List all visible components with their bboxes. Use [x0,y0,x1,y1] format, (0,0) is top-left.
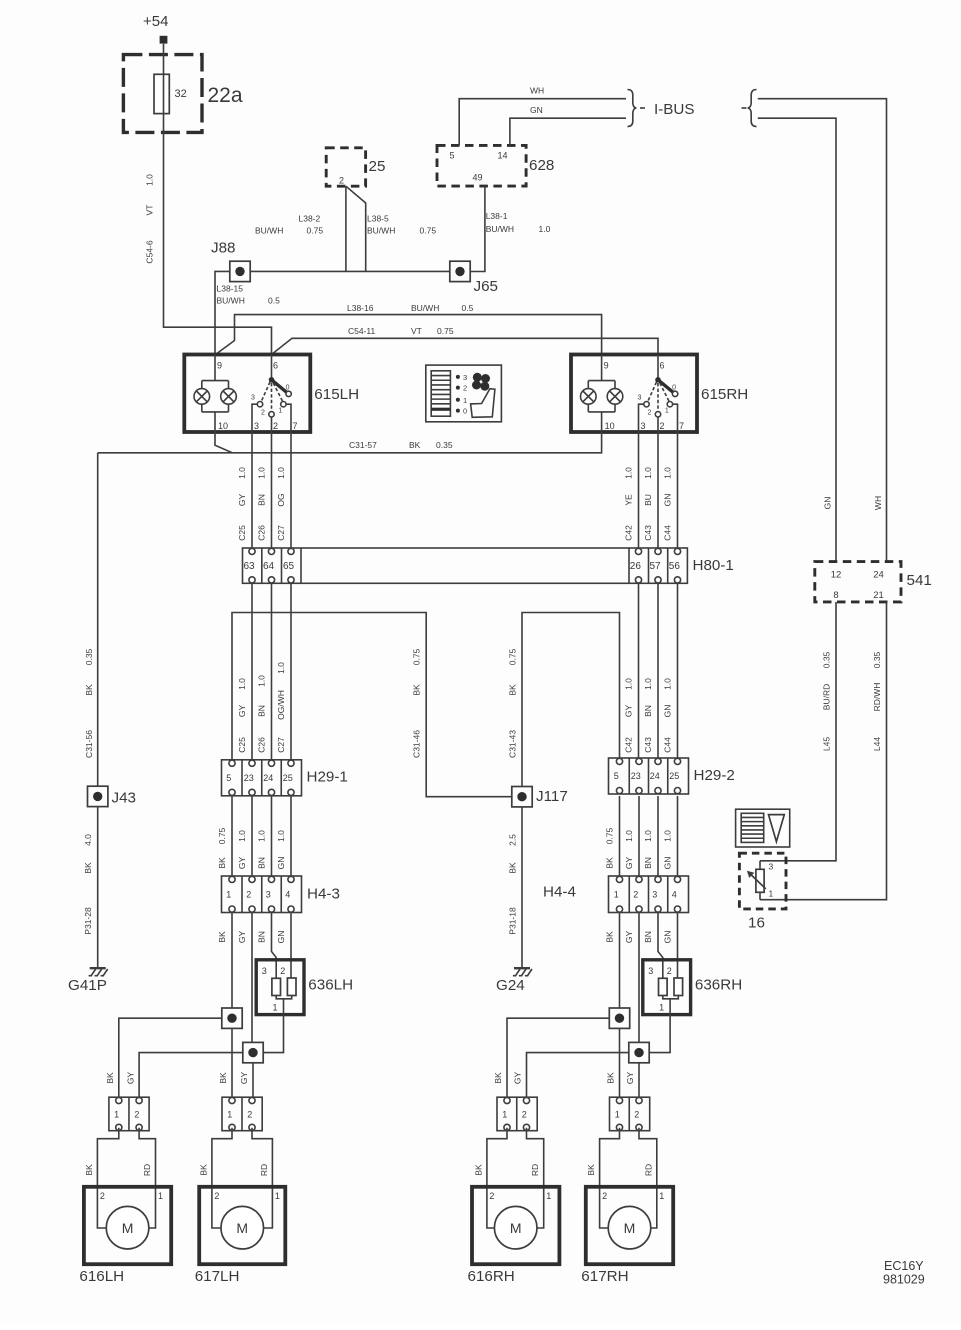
svg-text:BN: BN [643,705,653,717]
svg-text:L38-2: L38-2 [299,214,321,224]
connector H29-2 [609,758,735,794]
svg-text:3: 3 [641,421,646,431]
615LH housing [184,355,310,433]
wire C26 BN 1.0 (H80-1 to H29-1) [257,583,272,760]
svg-text:BK: BK [218,1072,228,1084]
labels BK GY [105,1072,135,1085]
svg-text:0.35: 0.35 [821,651,831,668]
svg-text:BK: BK [507,684,517,696]
svg-text:2: 2 [633,889,638,899]
backrest heater motor 617RH [581,1128,673,1285]
svg-text:3: 3 [266,889,271,899]
wire BK (H4-4 pin1 down) [605,913,620,1009]
svg-text:M: M [624,1220,636,1236]
svg-text:3: 3 [251,395,255,402]
node +54 supply [143,13,168,44]
svg-text:2: 2 [667,966,672,976]
svg-text:H80-1: H80-1 [693,557,734,574]
svg-text:EC16Y: EC16Y [884,1259,924,1273]
svg-text:2: 2 [261,410,265,417]
svg-text:9: 9 [604,361,609,371]
svg-text:1: 1 [659,1003,664,1013]
svg-text:G24: G24 [496,977,525,994]
svg-text:BK: BK [217,857,227,869]
svg-text:26: 26 [630,561,642,572]
wire pin4 GN (H29 to H4) [276,796,291,876]
svg-text:BK: BK [493,1072,503,1084]
svg-text:6: 6 [273,361,278,371]
wire BK down to 617RH connector [619,1028,621,1097]
wire GN (628 pin 14 to I-BUS) [510,105,626,146]
wire C43 BN 1.0 (H80-1 to H29-2) [643,583,658,758]
wire pin1 BK (H29 to H4) [217,796,232,876]
svg-text:617LH: 617LH [195,1268,240,1285]
svg-text:BN: BN [257,494,267,506]
svg-text:C26: C26 [257,525,267,541]
I-BUS brace right [742,90,757,127]
wire GY (H4-3 pin2 down) [237,913,252,1043]
svg-text:GN: GN [276,857,286,870]
control module 25 [326,148,385,186]
svg-text:BU: BU [643,494,653,506]
svg-text:BK: BK [606,1072,616,1084]
svg-text:1.0: 1.0 [145,174,155,186]
wire BK branch to 616RH connector [507,1018,609,1097]
svg-text:L45: L45 [821,737,831,751]
svg-text:49: 49 [473,173,483,183]
svg-text:L38-16: L38-16 [347,303,374,313]
svg-text:C25: C25 [237,737,247,753]
svg-text:GN: GN [663,931,673,944]
svg-text:I-BUS: I-BUS [654,101,695,118]
svg-text:0: 0 [672,385,676,392]
svg-text:VT: VT [411,326,422,336]
svg-text:25: 25 [669,771,679,781]
seat cushion heater motor 616LH [79,1128,171,1285]
svg-text:RD: RD [259,1164,269,1176]
wire pin1 BK (H29 to H4) [605,796,620,876]
svg-text:23: 23 [631,771,641,781]
wire J88 to J65 [250,270,450,272]
svg-text:616LH: 616LH [79,1268,124,1285]
svg-text:2: 2 [280,966,285,976]
svg-text:2: 2 [648,410,652,417]
wire C31-46 BK 0.75 (H29-1 pin5 to J117) [232,613,512,797]
svg-text:GY: GY [624,857,634,870]
wire pin2 GY (H29 to H4) [624,796,639,876]
svg-text:GY: GY [237,494,247,507]
wire C31-43 BK 0.75 (H29-2 pin5 to J117) [507,613,619,787]
connector 616RH 2-pin [497,1097,537,1131]
svg-text:BK: BK [412,684,422,696]
svg-text:GN: GN [530,105,543,115]
wire WH (I-BUS to 541 pin 24) [758,99,887,562]
svg-text:RD/WH: RD/WH [872,683,882,712]
svg-text:7: 7 [293,421,298,431]
switch illustration legend [426,365,502,422]
svg-text:C27: C27 [276,525,286,541]
svg-text:BK: BK [605,857,615,869]
svg-text:GN: GN [663,857,673,870]
wire WH (628 pin 5 to I-BUS) [459,86,626,146]
svg-text:1: 1 [615,1110,620,1120]
svg-text:0.75: 0.75 [605,827,615,844]
wire GY down to 617RH connector [638,1063,640,1097]
svg-text:65: 65 [283,561,295,572]
svg-text:BU/WH: BU/WH [486,224,514,234]
svg-text:4: 4 [285,889,290,899]
backrest heater motor 617LH [195,1128,286,1285]
svg-text:L38-15: L38-15 [217,284,244,294]
615LH rotary switch [251,355,291,433]
wire L38-1 BU/WH 1.0 (628 pin 49 to J65) [470,186,551,271]
svg-text:RD: RD [643,1164,653,1176]
wire L38-2 BU/WH 0.75 [255,186,346,271]
svg-text:BN: BN [257,705,267,717]
svg-text:YE: YE [624,494,634,506]
svg-text:6: 6 [660,361,665,371]
junction BK tap LH [222,1008,242,1028]
svg-text:BN: BN [643,857,653,869]
wire C54-6 VT 1.0 (fuse to 615LH pin 6) [145,44,272,355]
svg-text:BN: BN [643,931,653,943]
svg-text:2: 2 [134,1110,139,1120]
svg-text:C31-43: C31-43 [507,730,517,758]
wire C31-56 BK 0.35 (to J43) [84,453,98,786]
615LH indicator lamps [194,355,236,433]
svg-text:GN: GN [663,494,673,507]
wire L44 RD/WH 0.35 (541 pin 21 to sensor 16 pin 1) [760,602,887,900]
svg-text:1.0: 1.0 [237,678,247,690]
wire 636LH pin1 to GY junction [263,1015,283,1053]
svg-text:H4-4: H4-4 [543,884,576,901]
wire L38-16 BU/WH 0.5 (615LH pin 9 to 615RH pin 9) [216,303,602,355]
svg-text:2: 2 [660,421,665,431]
wire C26 BN 1.0 (615LH pin2 to H80-1) [257,432,272,548]
svg-text:GY: GY [624,705,634,718]
svg-text:BK: BK [83,862,93,874]
heating pad 636LH [256,960,353,1015]
svg-text:+54: +54 [143,13,168,30]
svg-text:C26: C26 [257,737,267,753]
svg-text:1: 1 [769,889,774,899]
svg-text:23: 23 [244,773,254,783]
wire L45 BU/RD 0.35 (541 pin 8 to sensor 16 pin 3) [760,602,836,861]
connector 617RH 2-pin [610,1097,650,1131]
svg-text:BU/RD: BU/RD [821,684,831,710]
svg-text:1.0: 1.0 [624,830,634,842]
svg-text:VT: VT [145,205,155,216]
svg-text:24: 24 [263,773,273,783]
svg-text:10: 10 [218,421,228,431]
svg-text:0.75: 0.75 [307,226,324,236]
svg-text:BK: BK [409,440,421,450]
svg-text:C31-57: C31-57 [349,440,377,450]
junction J88 [211,240,250,282]
svg-text:GY: GY [237,857,247,870]
svg-text:GN: GN [663,705,673,718]
ground G41P [89,968,108,976]
svg-text:12: 12 [831,570,842,581]
svg-text:BK: BK [605,931,615,943]
615RH rotary switch [638,355,678,433]
svg-text:1.0: 1.0 [624,467,634,479]
wire C25 GY 1.0 (H80-1 to H29-1) [237,583,252,760]
svg-text:1: 1 [463,396,467,405]
svg-text:9: 9 [217,361,222,371]
svg-text:0.75: 0.75 [412,648,422,665]
svg-text:5: 5 [614,771,619,781]
wire GN (H4-3 pin4 to 636LH pin2) [276,913,291,979]
wire C54-11 VT 0.75 (615LH pin 6 to 615RH pin 6) [272,326,659,355]
svg-text:1: 1 [546,1191,551,1201]
svg-text:1: 1 [273,1003,278,1013]
svg-text:C42: C42 [624,737,634,753]
svg-text:1.0: 1.0 [643,467,653,479]
svg-text:BU/WH: BU/WH [411,303,439,313]
wire 636RH pin1 to GY junction [649,1015,670,1053]
wire GN (I-BUS to 541 pin 12) [758,118,836,561]
svg-text:WH: WH [873,496,883,510]
svg-text:22a: 22a [208,84,243,107]
svg-text:RD: RD [142,1164,152,1176]
svg-text:5: 5 [226,773,231,783]
svg-text:GN: GN [823,497,833,510]
svg-text:5: 5 [450,151,455,161]
svg-text:J117: J117 [536,788,568,805]
svg-text:C44: C44 [663,737,673,753]
connector 616LH 2-pin [109,1097,149,1131]
svg-text:C31-46: C31-46 [412,730,422,758]
svg-text:OG/WH: OG/WH [276,690,286,720]
wire C42 YE 1.0 (615RH pin3 to H80-1) [624,432,639,548]
wire GY (H4-4 pin2 down) [624,913,639,1043]
svg-text:0.5: 0.5 [462,303,474,313]
wire L38-15 BU/WH 0.5 (J88 to 615LH pin 9) [215,271,280,354]
svg-text:C43: C43 [643,525,653,541]
svg-text:1: 1 [114,1110,119,1120]
svg-text:C54-6: C54-6 [145,240,155,263]
svg-text:25: 25 [369,158,386,175]
wire BK branch to 616LH connector [119,1018,222,1097]
fuse 22a (fuse 32) [123,55,242,133]
plate EC16Y 981029 [883,1259,925,1287]
svg-text:BK: BK [473,1164,483,1176]
svg-text:BK: BK [105,1072,115,1084]
svg-text:BU/WH: BU/WH [217,296,245,306]
control module 628 [437,145,554,186]
svg-text:2: 2 [214,1191,219,1201]
svg-text:3: 3 [262,966,267,976]
svg-text:24: 24 [873,570,884,581]
svg-text:8: 8 [833,590,838,601]
wire pin4 GN (H29 to H4) [663,796,678,876]
svg-text:2: 2 [246,889,251,899]
wire C43 BU 1.0 (615RH pin2 to H80-1) [643,432,658,548]
connector H29-1 [222,760,348,796]
junction J65 [450,261,498,295]
temperature sensor 16 [739,853,786,931]
svg-text:615LH: 615LH [314,386,359,403]
wire C25 GY 1.0 (615LH pin3 to H80-1) [237,432,252,548]
junction BK tap RH [609,1008,629,1028]
svg-text:541: 541 [907,572,932,589]
svg-text:1.0: 1.0 [539,224,551,234]
svg-text:1.0: 1.0 [663,678,673,690]
svg-text:C27: C27 [276,737,286,753]
svg-text:1: 1 [227,1110,232,1120]
seat heating switch 615LH [184,355,359,433]
svg-text:G41P: G41P [68,977,107,994]
svg-text:GY: GY [125,1072,135,1085]
svg-text:1: 1 [226,889,231,899]
svg-text:63: 63 [244,561,256,572]
svg-text:1.0: 1.0 [276,662,286,674]
svg-text:981029: 981029 [883,1273,925,1287]
svg-text:1: 1 [614,889,619,899]
junction J43 [88,786,137,806]
svg-text:4: 4 [672,889,677,899]
svg-text:2: 2 [522,1110,527,1120]
svg-text:2: 2 [273,421,278,431]
svg-text:1.0: 1.0 [257,830,267,842]
svg-text:1.0: 1.0 [237,830,247,842]
wire C44 GN 1.0 (615RH pin7 to H80-1) [663,432,678,548]
svg-text:0.5: 0.5 [268,296,280,306]
svg-text:BU/WH: BU/WH [367,226,395,236]
svg-text:P31-18: P31-18 [507,907,517,935]
svg-text:24: 24 [650,771,660,781]
svg-text:0.75: 0.75 [437,326,454,336]
svg-text:3: 3 [648,966,653,976]
svg-text:32: 32 [175,88,187,100]
seat cushion heater motor 616RH [468,1128,560,1285]
svg-text:M: M [122,1220,134,1236]
svg-text:WH: WH [530,86,544,96]
svg-text:C31-56: C31-56 [84,730,94,758]
svg-text:2: 2 [247,1110,252,1120]
svg-text:BK: BK [507,862,517,874]
svg-text:0.75: 0.75 [217,827,227,844]
svg-text:P31-28: P31-28 [83,907,93,935]
svg-text:2: 2 [634,1110,639,1120]
svg-text:628: 628 [529,157,554,174]
svg-text:1.0: 1.0 [663,830,673,842]
wire GY branch to 616LH connector [139,1053,243,1098]
wire C42 GY 1.0 (H80-1 to H29-2) [624,583,639,758]
svg-text:BK: BK [198,1164,208,1176]
wire GY down to 617LH connector [252,913,253,1098]
control module 541 [815,562,932,602]
svg-text:3: 3 [463,373,467,382]
svg-text:25: 25 [283,773,293,783]
svg-text:615RH: 615RH [701,386,748,403]
615RH indicator lamps [581,355,623,433]
wire P31-28 BK 4.0 (J43 to G41P) [83,807,98,968]
svg-text:J65: J65 [474,278,499,295]
wire BN (H4-3 pin3 to 636LH pin3) [257,913,277,979]
svg-text:636RH: 636RH [695,977,742,994]
svg-text:M: M [510,1220,522,1236]
svg-text:2: 2 [339,176,344,186]
svg-text:3: 3 [638,395,642,402]
connector H4-4 [543,876,689,913]
svg-text:C25: C25 [237,525,247,541]
svg-text:BK: BK [84,684,94,696]
svg-text:2: 2 [463,384,467,393]
svg-text:M: M [236,1220,248,1236]
svg-text:L38-1: L38-1 [486,211,508,221]
svg-text:BU/WH: BU/WH [255,226,283,236]
svg-text:C42: C42 [624,525,634,541]
ground G24 [513,968,532,976]
svg-text:1: 1 [502,1110,507,1120]
svg-text:1.0: 1.0 [624,678,634,690]
svg-text:GY: GY [239,1072,249,1085]
svg-text:J88: J88 [211,240,236,257]
wire pin3 BN (H29 to H4) [257,796,272,876]
connector 617LH 2-pin [222,1097,262,1131]
svg-text:0.75: 0.75 [420,226,437,236]
svg-text:GY: GY [237,705,247,718]
svg-text:1.0: 1.0 [663,467,673,479]
wire GY branch to 616RH connector [527,1053,629,1098]
svg-text:BN: BN [257,931,267,943]
wire pin3 BN (H29 to H4) [643,796,658,876]
svg-text:GY: GY [237,931,247,944]
labels BK GY [493,1072,523,1085]
svg-text:1.0: 1.0 [643,830,653,842]
615RH housing [571,355,697,433]
svg-text:L38-5: L38-5 [367,214,389,224]
svg-text:21: 21 [873,590,884,601]
svg-text:1.0: 1.0 [257,467,267,479]
svg-text:57: 57 [650,561,662,572]
junction GY tap RH [629,1042,649,1062]
svg-text:H4-3: H4-3 [307,886,340,903]
svg-text:2: 2 [489,1191,494,1201]
labels BK GY [218,1072,249,1085]
svg-text:1: 1 [665,408,669,415]
labels BK GY [606,1072,636,1085]
svg-text:H29-2: H29-2 [694,767,735,784]
svg-text:BK: BK [217,931,227,943]
svg-text:0.35: 0.35 [436,440,453,450]
svg-text:617RH: 617RH [581,1268,628,1285]
wire GN (H4-4 pin4 to 636RH pin2) [663,913,678,979]
svg-text:C44: C44 [663,525,673,541]
svg-text:GY: GY [625,1072,635,1085]
svg-text:1.0: 1.0 [237,467,247,479]
svg-text:1: 1 [275,1191,280,1201]
svg-text:4.0: 4.0 [83,834,93,846]
svg-text:2: 2 [100,1191,105,1201]
svg-text:0: 0 [286,385,290,392]
svg-text:H29-1: H29-1 [307,769,348,786]
svg-text:3: 3 [254,421,259,431]
svg-text:0.35: 0.35 [84,648,94,665]
svg-text:3: 3 [769,862,774,872]
wire C27 OG 1.0 (615LH pin7 to H80-1) [276,432,291,548]
svg-text:10: 10 [605,421,615,431]
svg-text:16: 16 [748,915,765,932]
temperature illustration legend [736,809,790,847]
svg-text:C43: C43 [643,737,653,753]
svg-text:3: 3 [652,889,657,899]
svg-text:1: 1 [659,1191,664,1201]
svg-text:RD: RD [530,1164,540,1176]
svg-text:BK: BK [586,1164,596,1176]
